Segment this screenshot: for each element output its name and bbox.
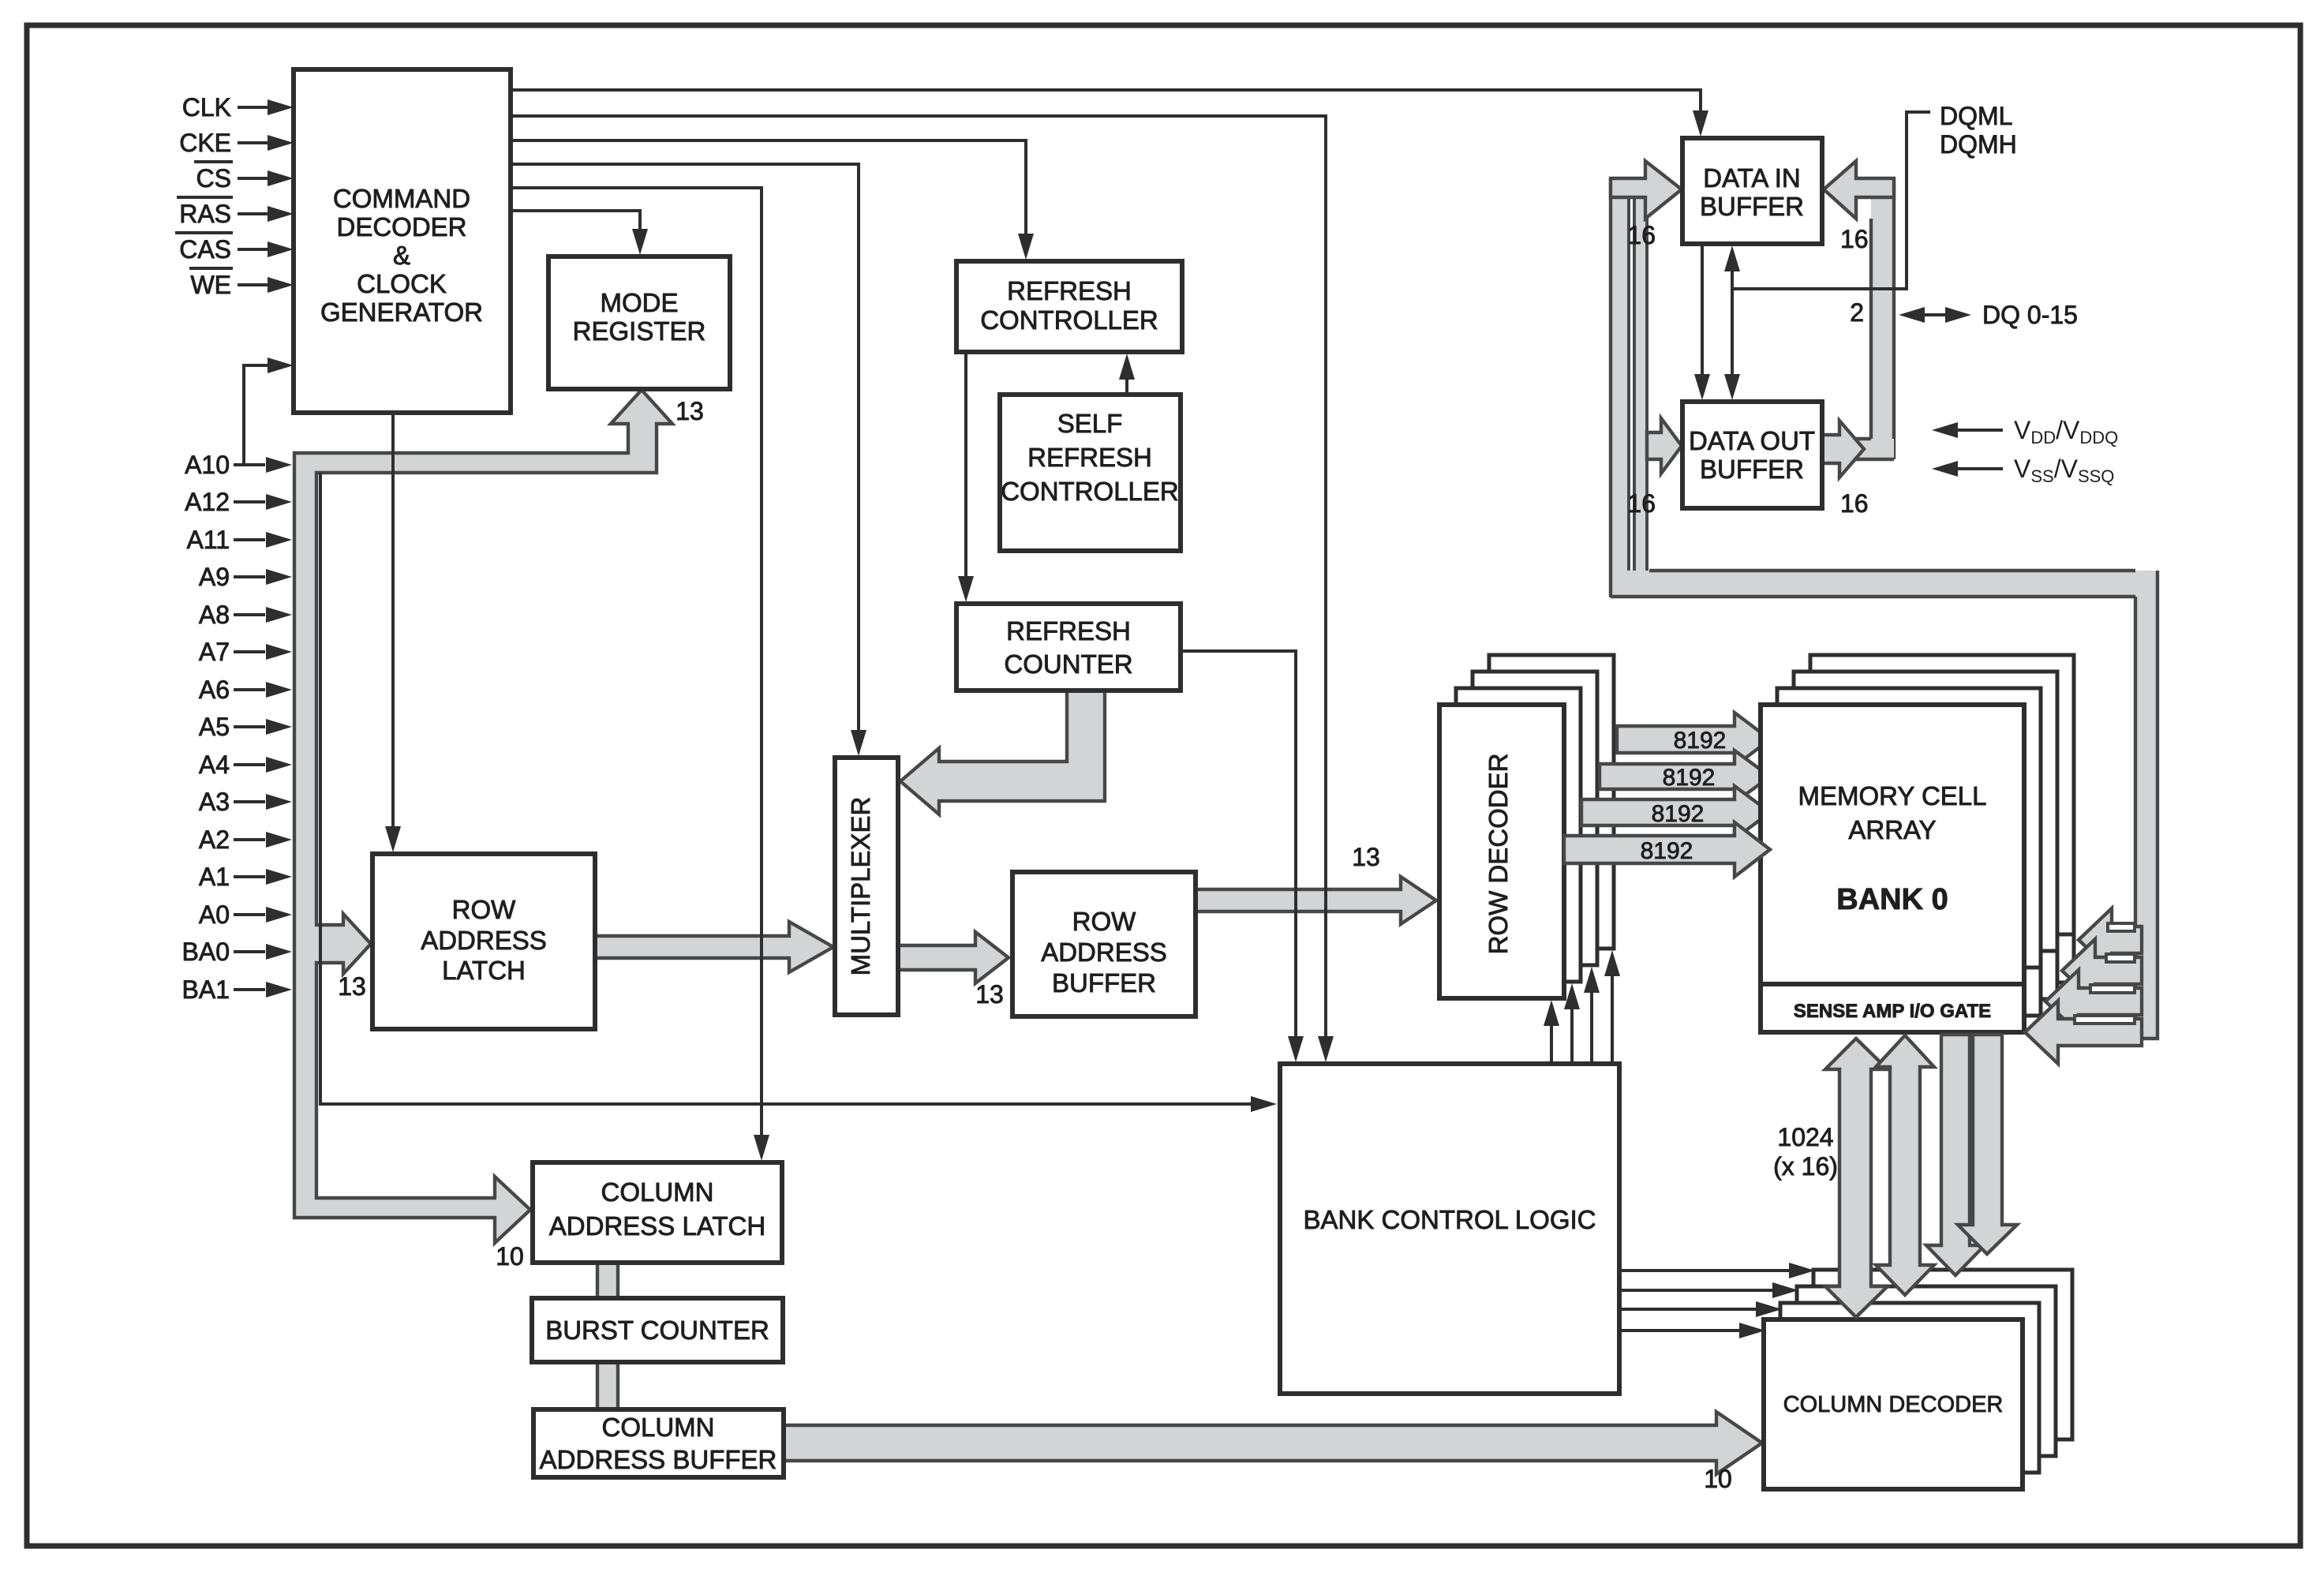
svg-text:CS: CS [196,164,231,193]
svg-text:COLUMN: COLUMN [601,1413,714,1442]
wire: row-address line A10 to BANK CONTROL LOGIC (horizontal run) [320,473,1252,1104]
block: MODE REGISTER [548,256,730,389]
svg-text:A11: A11 [186,526,230,554]
bus: 8192 word lines into rear bank [1600,750,1770,803]
svg-text:COUNTER: COUNTER [1004,649,1132,679]
block: REFRESH COUNTER [956,604,1181,691]
svg-text:16: 16 [1627,221,1656,249]
svg-text:A4: A4 [199,750,230,779]
bus arrow: into DATA OUT BUFFER left side (16) [1647,418,1682,473]
svg-text:BANK 0: BANK 0 [1836,883,1948,916]
svg-text:BUFFER: BUFFER [1700,192,1804,221]
svg-text:8192: 8192 [1674,728,1727,754]
wire: DATA IN BUFFER to DATA OUT BUFFER (down) [1701,244,1704,378]
bus: 8192 word lines into BANK 0 [1564,822,1770,877]
wire: command decoder to MULTIPLEXER [511,164,859,734]
svg-text:16: 16 [1627,489,1656,518]
wire: command decoder to COLUMN ADDRESS LATCH [511,188,762,1139]
svg-text:8192: 8192 [1663,765,1716,791]
wires: A12-A0,BA0,BA1 input arrows [234,500,265,503]
svg-text:GENERATOR: GENERATOR [320,298,483,327]
svg-text:MULTIPLEXER: MULTIPLEXER [846,797,875,976]
wires: BANK CONTROL LOGIC to COLUMN DECODER stack (x4) [1619,1269,1791,1272]
wire: WE input [238,283,271,286]
block: BANK CONTROL LOGIC [1280,1064,1619,1394]
wire: REFRESH CONTROLLER to REFRESH COUNTER [964,352,967,580]
bus arrows: DQ loop into SENSE AMP I/O GATE of 4 banks (staggered comb) [2079,908,2142,971]
svg-text:CKE: CKE [179,129,231,157]
block stack: ROW DECODER x4 (rear to front) [1489,655,1614,949]
svg-text:COMMAND: COMMAND [333,184,470,213]
bus arrow: DATA OUT BUFFER output into DQ band (16) [1822,421,1864,477]
svg-text:13: 13 [675,397,704,425]
svg-text:BA1: BA1 [182,975,230,1004]
svg-text:ROW: ROW [452,895,517,924]
svg-text:BANK CONTROL LOGIC: BANK CONTROL LOGIC [1303,1205,1596,1234]
bus: BURST COUNTER to COLUMN ADDRESS BUFFER stub [597,1361,618,1411]
svg-text:ROW DECODER: ROW DECODER [1484,754,1513,955]
svg-text:2: 2 [1850,298,1864,327]
wire: DQ 0-15 bidirectional arrow [1921,313,1951,316]
svg-text:A12: A12 [185,488,230,516]
svg-text:BA0: BA0 [182,938,230,966]
svg-text:SELF: SELF [1057,409,1123,438]
wire: command decoder to REFRESH CONTROLLER [511,140,1026,238]
svg-text:A3: A3 [199,788,230,816]
wire: CS input [238,177,271,180]
bus: ROW ADDRESS LATCH to MULTIPLEXER (13) [595,922,833,972]
svg-text:A7: A7 [199,638,230,666]
svg-text:10: 10 [496,1242,524,1271]
wire: A10 branch up into command decoder [244,365,271,465]
svg-text:&: & [393,241,410,270]
block: MULTIPLEXER [835,758,898,1015]
svg-text:BURST COUNTER: BURST COUNTER [545,1316,769,1345]
svg-text:(x 16): (x 16) [1773,1152,1838,1181]
bus: REFRESH COUNTER down-left into MULTIPLEXER [900,689,1105,814]
bus: COLUMN ADDRESS LATCH to BURST COUNTER stub [597,1261,618,1300]
bus: data loop bottom horizontal band [1611,571,2135,597]
svg-text:REFRESH: REFRESH [1007,276,1132,305]
svg-text:10: 10 [1704,1465,1732,1493]
block: COMMAND DECODER & CLOCK GENERATOR [294,69,511,413]
svg-text:A2: A2 [199,825,230,854]
bus: MULTIPLEXER to ROW ADDRESS BUFFER (13) [898,932,1009,983]
block stack: MEMORY CELL ARRAY banks x4 (rear to front) interleaved with 8192 word-line buses [1810,655,2074,982]
wire: CKE input [238,141,271,144]
svg-text:CONTROLLER: CONTROLLER [980,305,1158,335]
wire: RAS input [238,212,271,215]
bus arrow: into DATA IN BUFFER left side (16) [1611,161,1682,219]
svg-text:REFRESH: REFRESH [1027,443,1152,472]
svg-text:DECODER: DECODER [336,212,466,241]
svg-text:ADDRESS: ADDRESS [1041,938,1167,967]
wire: VSS/VSSQ supply arrow [1953,467,2003,470]
bus: data loop right vertical band down to sense amps [2135,571,2157,1039]
wire: command decoder bottom to ROW ADDRESS LATCH [391,413,395,830]
block: COLUMN ADDRESS BUFFER [533,1409,784,1477]
bus: DATA OUT to DQ horizontal band [1822,439,1894,459]
wires: BANK CONTROL LOGIC up to ROW DECODER stack (x4) [1550,1024,1553,1064]
bus: DQ vertical band right of data buffers [1871,178,1894,459]
svg-text:MODE: MODE [601,288,679,317]
wire: SELF REFRESH CONTROLLER to REFRESH CONTROLLER [1125,376,1128,395]
wire: VDD/VDDQ supply arrow [1953,429,2003,432]
svg-text:ADDRESS: ADDRESS [421,926,547,955]
svg-text:LATCH: LATCH [442,956,526,985]
svg-text:13: 13 [975,980,1004,1009]
bus arrow: DQ band into DATA IN BUFFER right side (16) [1824,161,1894,219]
separator line: SENSE AMP I/O GATE strip [1761,982,2024,986]
bus: ROW ADDRESS BUFFER to ROW DECODER (13) [1196,877,1436,924]
block: ROW ADDRESS LATCH [372,854,595,1029]
svg-text:RAS: RAS [179,200,231,228]
bus: COLUMN ADDRESS BUFFER to COLUMN DECODER (10) [784,1412,1762,1474]
block: SELF REFRESH CONTROLLER [1000,395,1181,551]
svg-text:A1: A1 [199,863,230,891]
svg-text:16: 16 [1840,225,1869,253]
wire: DATA OUT BUFFER to DATA IN BUFFER (bidirectional) [1731,268,1734,378]
svg-text:A0: A0 [199,900,230,929]
wire: CAS input [238,248,271,251]
svg-text:1024: 1024 [1777,1123,1833,1151]
svg-text:DATA OUT: DATA OUT [1689,426,1815,455]
svg-text:CLOCK: CLOCK [357,269,447,298]
bus: address input bus A0-A12/BA0-BA1 with branches to MODE REGISTER, ROW ADDRESS LATCH, COLUMN ADDRESS LATCH [294,390,672,1243]
svg-text:ROW: ROW [1072,907,1137,936]
block: DATA OUT BUFFER [1682,402,1822,508]
svg-text:DQ 0-15: DQ 0-15 [1982,301,2078,329]
svg-text:BUFFER: BUFFER [1700,455,1804,484]
svg-text:SENSE AMP I/O GATE: SENSE AMP I/O GATE [1794,1001,1991,1022]
block: BURST COUNTER [532,1298,783,1362]
wire: command decoder to MODE REGISTER [511,211,640,233]
svg-text:DQML: DQML [1940,102,2012,130]
wire: CLK input [238,106,271,109]
bus: 8192 word lines into rear bank [1617,713,1770,766]
white notches between comb arrows [2108,923,2135,931]
bus: inner vertical band left of data buffers [1634,198,1647,571]
svg-text:REGISTER: REGISTER [573,316,706,346]
svg-text:ADDRESS LATCH: ADDRESS LATCH [549,1211,765,1241]
wire: A10 input arrow into address bus [234,463,265,466]
wire: DQML/DQMH mask line to buffers [1732,112,1930,289]
wire: command decoder to DATA IN BUFFER (top run) [511,90,1701,115]
svg-text:A10: A10 [185,451,230,479]
svg-text:A9: A9 [199,563,230,591]
wire: command decoder to BANK CONTROL LOGIC (long vertical) [511,116,1326,1040]
svg-text:8192: 8192 [1641,838,1693,864]
svg-text:A8: A8 [199,601,230,629]
svg-text:ADDRESS BUFFER: ADDRESS BUFFER [540,1445,777,1474]
svg-text:DQMH: DQMH [1940,130,2017,159]
svg-text:COLUMN: COLUMN [601,1177,713,1207]
svg-text:16: 16 [1840,489,1869,518]
block: COLUMN ADDRESS LATCH [533,1162,782,1263]
bus: 1024 (x16) bidirectional strips sense amp to column decoder (x4) [1825,1039,1888,1317]
svg-text:BUFFER: BUFFER [1052,968,1156,997]
svg-text:A6: A6 [199,676,230,704]
svg-text:COLUMN DECODER: COLUMN DECODER [1783,1392,2004,1417]
svg-text:8192: 8192 [1652,801,1705,827]
block stack: COLUMN DECODER x4 (rear to front) [1813,1270,2072,1439]
bus: 8192 word lines into rear bank [1581,786,1770,839]
svg-text:WE: WE [190,271,231,299]
block: DATA IN BUFFER [1682,138,1822,244]
svg-text:13: 13 [338,972,366,1001]
svg-text:13: 13 [1352,843,1380,871]
svg-text:MEMORY CELL: MEMORY CELL [1798,781,1986,810]
wire: REFRESH COUNTER to BANK CONTROL LOGIC [1181,651,1296,1040]
svg-text:CONTROLLER: CONTROLLER [1001,477,1179,506]
block: REFRESH CONTROLLER [956,261,1182,352]
svg-text:CAS: CAS [179,235,231,264]
svg-text:DATA IN: DATA IN [1703,163,1800,193]
block: ROW ADDRESS BUFFER [1012,872,1196,1016]
svg-text:REFRESH: REFRESH [1006,616,1131,646]
svg-text:A5: A5 [199,713,230,741]
svg-text:ARRAY: ARRAY [1848,815,1936,844]
svg-text:CLK: CLK [182,93,231,122]
bus: outer vertical band left of data buffers [1611,178,1629,571]
